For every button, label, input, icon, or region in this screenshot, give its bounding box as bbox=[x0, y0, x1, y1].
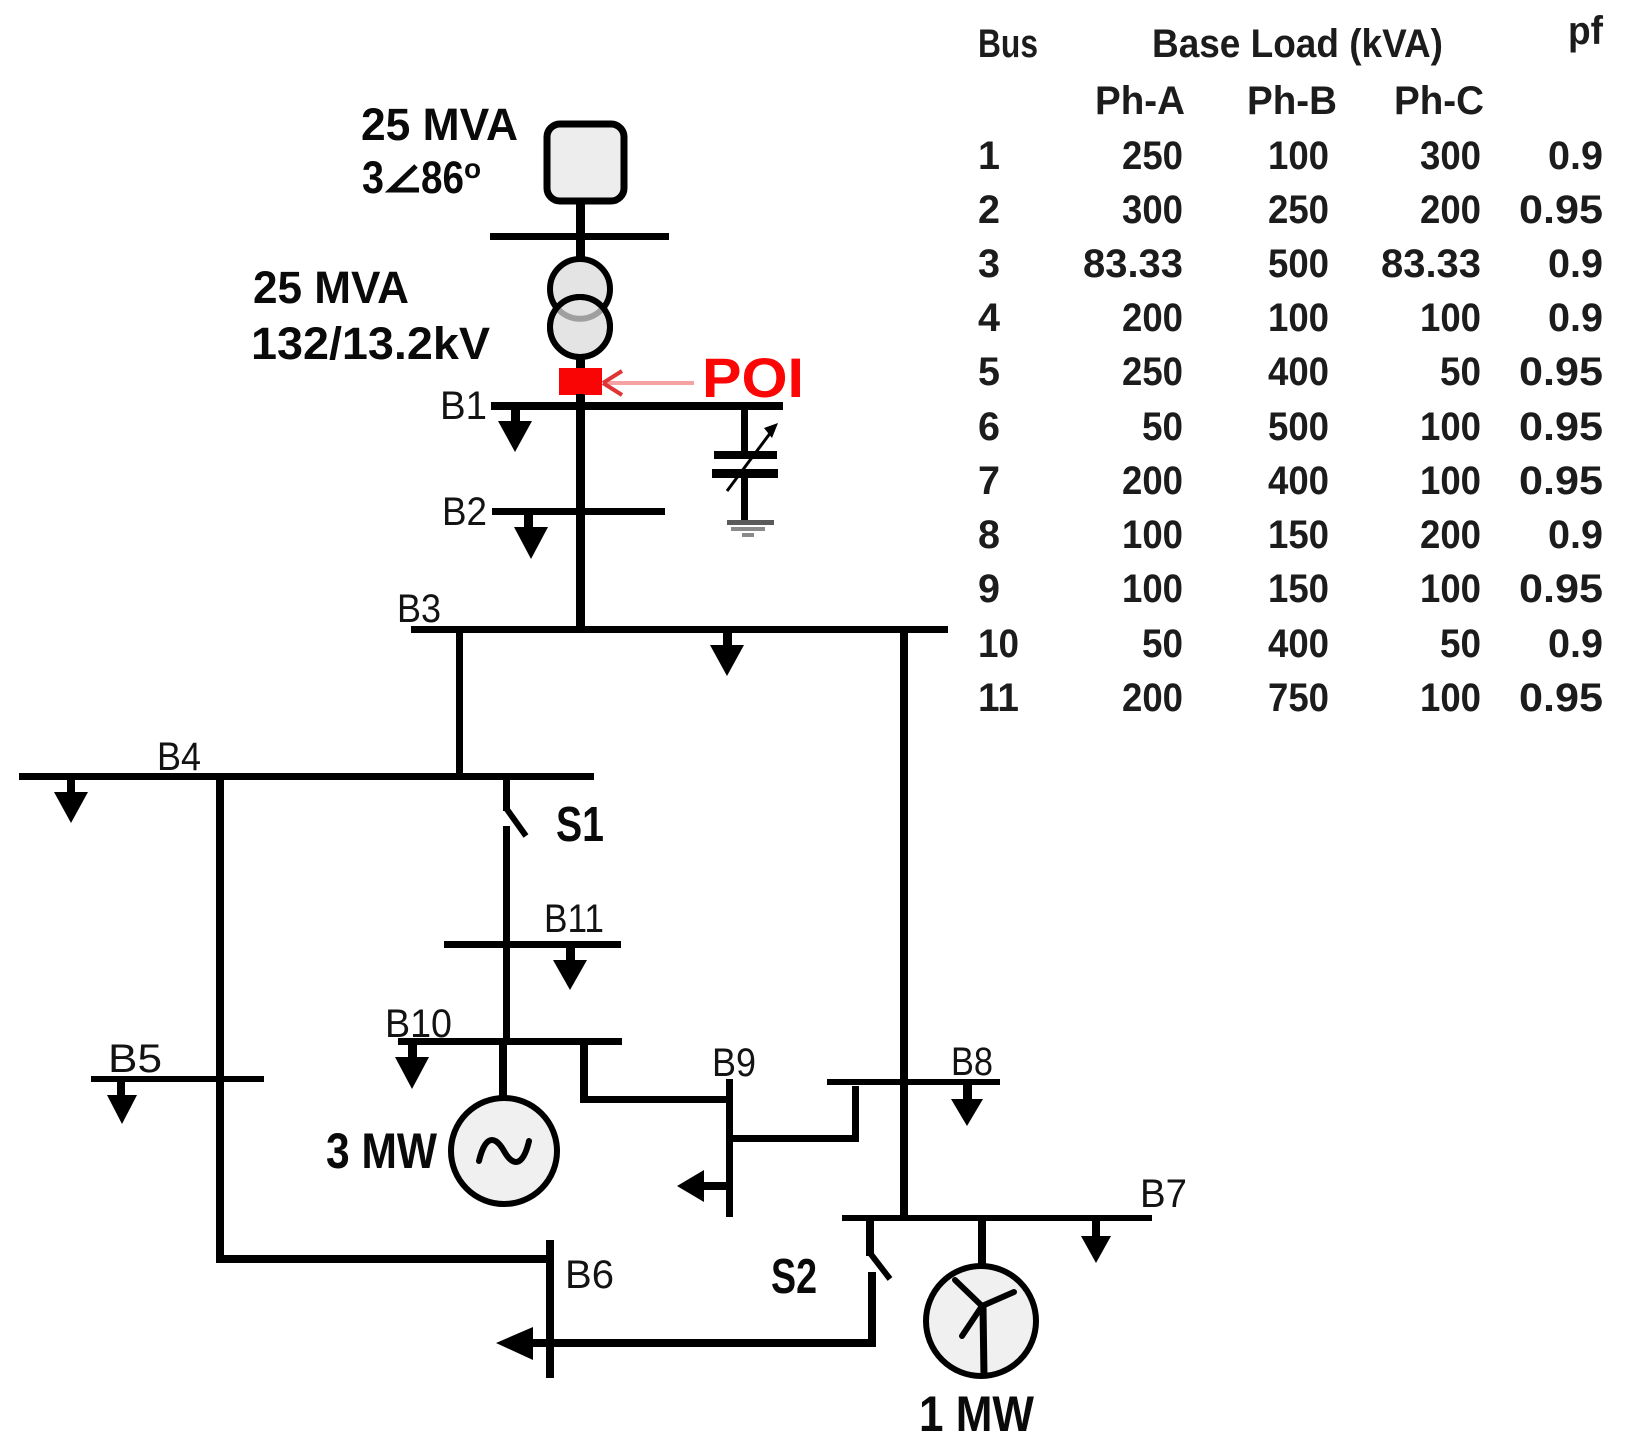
svg-text:B8: B8 bbox=[951, 1040, 993, 1084]
switch S1 bbox=[503, 780, 526, 836]
svg-text:POI: POI bbox=[702, 346, 804, 409]
wire: B3 to B4 bbox=[456, 633, 463, 776]
svg-text:B4: B4 bbox=[157, 735, 201, 779]
wire: B11 to B10 bbox=[503, 948, 510, 1041]
svg-text:200: 200 bbox=[1122, 459, 1183, 503]
svg-text:83.33: 83.33 bbox=[1083, 242, 1183, 286]
load arrow at B5 bbox=[107, 1082, 137, 1124]
svg-text:7: 7 bbox=[978, 459, 1000, 503]
bus B6 (vertical) bbox=[546, 1240, 554, 1378]
svg-text:Ph-A: Ph-A bbox=[1095, 79, 1185, 123]
svg-text:Ph-C: Ph-C bbox=[1394, 79, 1484, 123]
svg-text:0.95: 0.95 bbox=[1519, 459, 1603, 503]
svg-text:132/13.2kV: 132/13.2kV bbox=[251, 318, 490, 369]
svg-text:11: 11 bbox=[978, 676, 1019, 720]
svg-text:300: 300 bbox=[1420, 134, 1481, 178]
svg-text:0.95: 0.95 bbox=[1519, 676, 1603, 720]
bus B11 bbox=[444, 941, 621, 948]
svg-text:150: 150 bbox=[1268, 567, 1329, 611]
svg-text:B5: B5 bbox=[108, 1037, 162, 1081]
svg-text:86: 86 bbox=[421, 152, 464, 203]
svg-text:150: 150 bbox=[1268, 513, 1329, 557]
wire: transformer to POI bbox=[576, 355, 585, 370]
HV bar bbox=[490, 233, 669, 240]
wire: B1 to shunt capacitor bbox=[741, 410, 748, 452]
svg-text:3: 3 bbox=[362, 152, 384, 203]
svg-text:25 MVA: 25 MVA bbox=[361, 99, 518, 150]
svg-text:B11: B11 bbox=[544, 897, 604, 941]
svg-text:B7: B7 bbox=[1140, 1172, 1187, 1216]
bus B9 (vertical) bbox=[726, 1079, 733, 1217]
svg-text:9: 9 bbox=[978, 567, 1000, 611]
svg-text:pf: pf bbox=[1568, 9, 1604, 53]
load arrow at B8 bbox=[951, 1085, 983, 1126]
svg-text:200: 200 bbox=[1122, 676, 1183, 720]
svg-text:83.33: 83.33 bbox=[1381, 242, 1481, 286]
svg-text:100: 100 bbox=[1122, 567, 1183, 611]
wind generator W1 (1 MW) bbox=[926, 1266, 1036, 1377]
svg-text:B9: B9 bbox=[712, 1041, 756, 1085]
svg-text:0.95: 0.95 bbox=[1519, 405, 1603, 449]
value label 3∠86º bbox=[362, 152, 481, 203]
svg-text:50: 50 bbox=[1142, 622, 1183, 666]
svg-text:4: 4 bbox=[978, 296, 1001, 340]
svg-text:B3: B3 bbox=[397, 587, 441, 631]
svg-text:B1: B1 bbox=[440, 384, 487, 428]
svg-text:100: 100 bbox=[1268, 134, 1329, 178]
load arrow at B7 bbox=[1081, 1221, 1111, 1263]
wire: source to HV bar bbox=[576, 201, 585, 236]
svg-text:250: 250 bbox=[1268, 188, 1329, 232]
svg-text:100: 100 bbox=[1122, 513, 1183, 557]
svg-text:1 MW: 1 MW bbox=[919, 1386, 1035, 1442]
feeder wire: POI down to bus B3 bbox=[576, 394, 585, 632]
svg-text:B10: B10 bbox=[385, 1002, 452, 1046]
svg-text:100: 100 bbox=[1420, 459, 1481, 503]
svg-text:0.9: 0.9 bbox=[1548, 134, 1603, 178]
load arrow at B10 bbox=[395, 1045, 429, 1089]
load arrow at B11 bbox=[553, 948, 587, 990]
wire: S1 to B11 bbox=[503, 826, 510, 944]
ground bbox=[727, 520, 774, 537]
svg-text:B2: B2 bbox=[442, 490, 487, 534]
bus B10 bbox=[398, 1038, 622, 1045]
svg-text:Ph-B: Ph-B bbox=[1247, 79, 1337, 123]
bus B5 bbox=[91, 1076, 264, 1082]
svg-text:S1: S1 bbox=[556, 798, 604, 852]
svg-text:o: o bbox=[464, 153, 481, 184]
svg-text:500: 500 bbox=[1268, 242, 1329, 286]
svg-text:10: 10 bbox=[978, 622, 1019, 666]
svg-text:50: 50 bbox=[1440, 350, 1481, 394]
svg-text:3: 3 bbox=[978, 242, 1000, 286]
svg-text:400: 400 bbox=[1268, 622, 1329, 666]
wire: B4 down to corner and to B6 bbox=[216, 780, 224, 1262]
svg-text:200: 200 bbox=[1420, 188, 1481, 232]
svg-text:0.95: 0.95 bbox=[1519, 350, 1603, 394]
svg-text:0.9: 0.9 bbox=[1548, 296, 1603, 340]
svg-text:1: 1 bbox=[978, 134, 1000, 178]
load arrow at B1 bbox=[498, 410, 532, 452]
svg-text:0.95: 0.95 bbox=[1519, 567, 1603, 611]
load arrow at B3 bbox=[710, 633, 744, 676]
svg-text:50: 50 bbox=[1440, 622, 1481, 666]
svg-text:6: 6 bbox=[978, 405, 1000, 449]
svg-text:50: 50 bbox=[1142, 405, 1183, 449]
svg-text:250: 250 bbox=[1122, 350, 1183, 394]
svg-text:0.95: 0.95 bbox=[1519, 188, 1603, 232]
svg-text:100: 100 bbox=[1420, 567, 1481, 611]
load arrow at B6 (pointing left) + wire from S2 bbox=[496, 1327, 872, 1360]
grid source (rounded square) bbox=[547, 124, 624, 201]
svg-text:0.9: 0.9 bbox=[1548, 513, 1603, 557]
svg-text:25 MVA: 25 MVA bbox=[253, 262, 409, 313]
svg-text:Base Load (kVA): Base Load (kVA) bbox=[1152, 22, 1443, 66]
bus B3 bbox=[411, 626, 948, 633]
load arrow at B4 bbox=[54, 780, 88, 823]
table: bus base-load data bbox=[978, 9, 1604, 123]
svg-text:100: 100 bbox=[1268, 296, 1329, 340]
svg-text:750: 750 bbox=[1268, 676, 1329, 720]
bus B2 bbox=[492, 508, 665, 515]
generator G1 (3 MW synchronous) bbox=[451, 1098, 557, 1204]
svg-text:B6: B6 bbox=[565, 1253, 614, 1297]
load arrow at B2 bbox=[514, 515, 548, 559]
svg-text:100: 100 bbox=[1420, 405, 1481, 449]
wire: B10 to generator G1 bbox=[499, 1045, 507, 1097]
svg-text:3 MW: 3 MW bbox=[326, 1123, 438, 1179]
wire: B10 to B9 bbox=[580, 1045, 588, 1103]
bus B1 bbox=[491, 402, 783, 410]
transformer T1 132/13.2kV (two-winding) bbox=[550, 259, 610, 319]
wire: B3 to B8/B7 (right feeder) bbox=[900, 633, 908, 1218]
POI marker (red square node) bbox=[559, 368, 602, 395]
POI callout arrow bbox=[603, 371, 694, 395]
svg-text:100: 100 bbox=[1420, 676, 1481, 720]
svg-text:400: 400 bbox=[1268, 459, 1329, 503]
bus B7 bbox=[842, 1215, 1152, 1221]
wire: HV bar to transformer bbox=[576, 240, 585, 260]
svg-text:S2: S2 bbox=[771, 1250, 817, 1304]
switch S2 bbox=[866, 1221, 890, 1347]
svg-text:8: 8 bbox=[978, 513, 1000, 557]
svg-text:200: 200 bbox=[1420, 513, 1481, 557]
bus B8 bbox=[827, 1079, 1000, 1085]
bus B4 bbox=[19, 773, 594, 780]
wire: B9 to B8 bbox=[729, 1135, 856, 1142]
svg-text:2: 2 bbox=[978, 188, 1000, 232]
svg-text:100: 100 bbox=[1420, 296, 1481, 340]
svg-text:Bus: Bus bbox=[978, 22, 1038, 66]
svg-text:0.9: 0.9 bbox=[1548, 622, 1603, 666]
svg-text:400: 400 bbox=[1268, 350, 1329, 394]
svg-text:0.9: 0.9 bbox=[1548, 242, 1603, 286]
svg-text:300: 300 bbox=[1122, 188, 1183, 232]
variable shunt capacitor bbox=[712, 423, 778, 521]
svg-text:200: 200 bbox=[1122, 296, 1183, 340]
svg-text:5: 5 bbox=[978, 350, 1000, 394]
load arrow at B9 (pointing left) bbox=[677, 1170, 729, 1202]
svg-text:250: 250 bbox=[1122, 134, 1183, 178]
svg-text:500: 500 bbox=[1268, 405, 1329, 449]
wire: B7 to wind generator bbox=[978, 1221, 986, 1267]
